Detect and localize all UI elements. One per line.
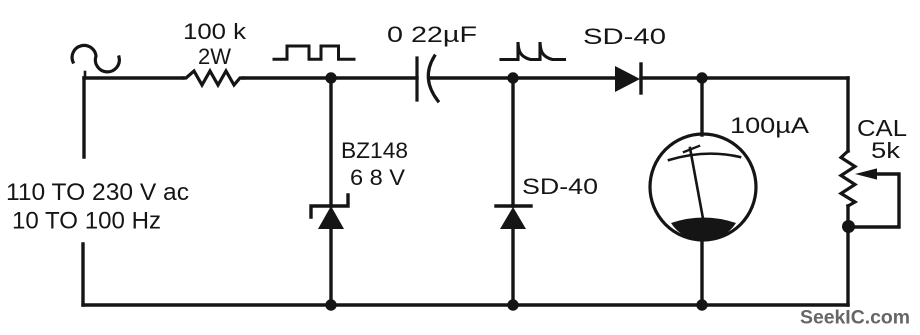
svg-text:0 22µF: 0 22µF — [387, 22, 477, 47]
svg-text:10 TO 100 Hz: 10 TO 100 Hz — [12, 208, 161, 235]
svg-text:6 8 V: 6 8 V — [350, 165, 405, 190]
svg-text:100µA: 100µA — [730, 113, 809, 138]
svg-text:SD-40: SD-40 — [522, 174, 598, 199]
svg-text:BZ148: BZ148 — [341, 138, 408, 163]
svg-text:5k: 5k — [871, 138, 901, 163]
svg-text:110 TO 230 V ac: 110 TO 230 V ac — [6, 179, 189, 206]
svg-text:SeekIC.com: SeekIC.com — [800, 307, 910, 329]
svg-text:2W: 2W — [198, 44, 231, 69]
svg-text:100 k: 100 k — [183, 19, 247, 44]
svg-text:SD-40: SD-40 — [583, 24, 666, 49]
